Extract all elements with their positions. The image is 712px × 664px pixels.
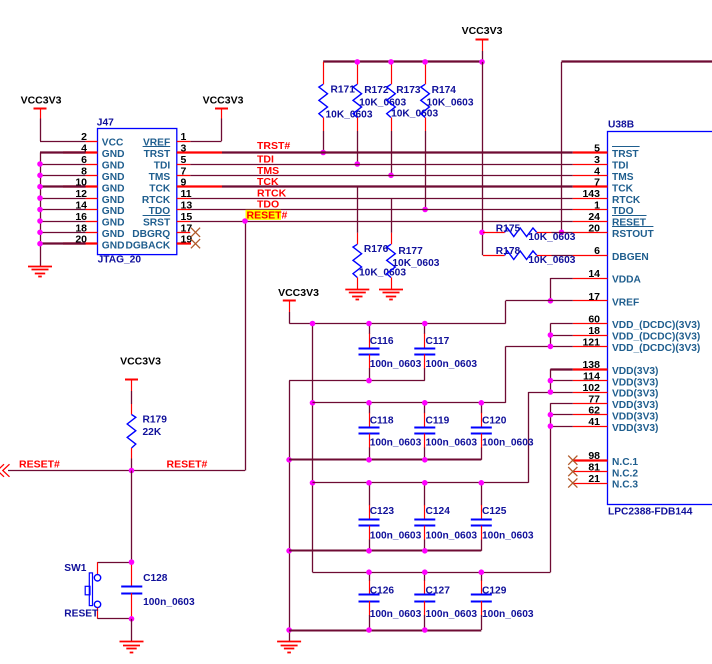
svg-text:C117: C117 (426, 336, 450, 347)
pin 60 VDD_(DCDC)(3V3) (U38B) (573, 314, 701, 332)
svg-text:R176: R176 (364, 244, 389, 255)
junction RESET# node (129, 468, 135, 474)
svg-text:VCC3V3: VCC3V3 (21, 94, 62, 106)
svg-text:10K_0603: 10K_0603 (359, 268, 406, 279)
svg-text:VDD(3V3): VDD(3V3) (612, 400, 658, 411)
resistor R179 22K (127, 404, 167, 471)
svg-text:VCC3V3: VCC3V3 (120, 356, 161, 368)
no-connect X (568, 467, 577, 476)
pin 2 VCC (J47 left stub) (81, 131, 124, 149)
svg-text:121: 121 (582, 336, 600, 348)
pin 24 RESET (U38B) (573, 211, 647, 229)
svg-text:R178: R178 (496, 246, 521, 257)
svg-text:R172: R172 (364, 85, 389, 96)
off-page arrow RESET# (0, 464, 9, 477)
svg-text:22K: 22K (143, 427, 162, 438)
svg-text:9: 9 (181, 177, 187, 189)
svg-text:100n_0603: 100n_0603 (482, 609, 534, 620)
svg-text:C126: C126 (370, 586, 395, 597)
no-connect X (568, 478, 577, 487)
pin 13 TDO (J47 right stub) (149, 200, 193, 218)
wire GND bus to pin 10 (37, 184, 85, 190)
pin 4 TMS (U38B) (573, 165, 634, 183)
wire VCC to U38B area (top right) (559, 62, 712, 236)
switch SW1 RESET (64, 562, 131, 619)
svg-text:10K_0603: 10K_0603 (391, 109, 438, 120)
pin 11 RTCK (J47 right stub) (142, 188, 192, 206)
svg-text:R173: R173 (396, 85, 421, 96)
svg-text:TRST: TRST (144, 149, 171, 160)
wire VCC vertical distribution (310, 321, 316, 573)
svg-text:100n_0603: 100n_0603 (426, 530, 478, 541)
pin 98 N.C.1 (U38B) (573, 450, 639, 468)
svg-text:18: 18 (588, 325, 600, 337)
svg-text:98: 98 (588, 450, 600, 462)
svg-text:10K_0603: 10K_0603 (392, 258, 439, 269)
junction (rail) (422, 59, 428, 65)
svg-text:VDD(3V3): VDD(3V3) (612, 366, 658, 377)
wire rail VDD3V3 (C123 row top) (313, 482, 529, 484)
wire net RESET (J47 to U38B) (190, 221, 573, 223)
power VCC3V3 (reset pull-up) (120, 356, 161, 405)
svg-text:138: 138 (582, 359, 600, 371)
pin 5 TDI (J47 right stub) (154, 154, 191, 172)
svg-text:LPC2388-FDB144: LPC2388-FDB144 (608, 506, 693, 517)
pin 114 VDD(3V3) (U38B) (573, 371, 659, 389)
svg-text:143: 143 (582, 188, 600, 200)
net label TDI (257, 154, 274, 166)
svg-text:77: 77 (588, 393, 600, 405)
svg-text:RESET#: RESET# (167, 459, 208, 471)
wire SRST net down from J47 pin15 (242, 218, 248, 470)
pin 1 TDO (U38B) (573, 200, 634, 218)
svg-text:GND: GND (102, 195, 125, 206)
wire VDD(3V3) bus A (528, 369, 573, 483)
svg-text:SW1: SW1 (64, 563, 86, 574)
svg-text:RESET#: RESET# (19, 459, 60, 471)
no-connect X (J47 pin 17) (191, 228, 200, 237)
label JTAG_20 (98, 254, 142, 265)
wire net TDI (J47 to U38B) (190, 164, 573, 166)
svg-text:20: 20 (588, 222, 600, 234)
power VCC3V3 (cap bank) (278, 287, 319, 324)
svg-text:C123: C123 (370, 506, 395, 517)
svg-text:TMS: TMS (612, 172, 634, 183)
capacitor C128 100n_0603 (121, 562, 195, 619)
wire rail C116/C117 bottom (289, 380, 425, 382)
svg-text:2: 2 (81, 131, 87, 143)
pin 21 N.C.3 (U38B) (573, 473, 639, 491)
svg-text:R171: R171 (331, 84, 356, 95)
svg-text:81: 81 (588, 462, 600, 474)
wire VDD_(DCDC) bus (506, 324, 573, 403)
wire J47 pin1 VREF to VCC3V3 (190, 141, 221, 143)
junction (rail) (388, 59, 394, 65)
pin 7 TMS (J47 right stub) (149, 165, 191, 183)
wire GND bus to pin 8 (37, 173, 85, 179)
svg-text:114: 114 (583, 371, 600, 383)
svg-text:4: 4 (594, 165, 600, 177)
wire rail VDD_DCDC (C118 row top) (313, 402, 506, 404)
svg-text:TDI: TDI (154, 161, 171, 172)
pin 5 TRST (U38B) (573, 143, 640, 161)
pin 8 GND (J47 left stub) (81, 165, 124, 183)
svg-text:J47: J47 (97, 118, 114, 129)
capacitor C120 100n_0603 (471, 400, 534, 460)
svg-text:U38B: U38B (608, 119, 634, 130)
wire rail VCC3V3 (C116/C117 top) (289, 323, 505, 325)
wire net RTCK (J47 to U38B) (190, 198, 573, 200)
svg-text:SRST: SRST (143, 218, 171, 229)
pin 20 GND (J47 left stub) (63, 234, 124, 252)
IC U38B box (608, 132, 712, 505)
pin 14 VDDA (U38B) (573, 268, 642, 286)
resistor R174 10K_0603 pull-up (421, 62, 474, 212)
svg-text:TRST#: TRST# (257, 140, 290, 152)
svg-text:3: 3 (181, 143, 187, 155)
net label TDO (257, 198, 279, 210)
power VCC3V3 (top-left) (21, 94, 62, 141)
label J47 (97, 118, 114, 129)
power VCC3V3 (pull-up rail) (462, 25, 503, 62)
svg-text:RSTOUT: RSTOUT (612, 229, 654, 240)
svg-text:VDD(3V3): VDD(3V3) (612, 411, 658, 422)
svg-text:10K_0603: 10K_0603 (326, 110, 373, 121)
svg-text:100n_0603: 100n_0603 (482, 530, 534, 541)
wire to ground (reset circuit) (131, 619, 133, 642)
svg-text:VDD(3V3): VDD(3V3) (612, 377, 658, 388)
svg-text:VCC3V3: VCC3V3 (203, 94, 244, 106)
net label RESET# (highlighted) (246, 209, 288, 221)
svg-text:100n_0603: 100n_0603 (370, 609, 422, 620)
svg-text:VREF: VREF (143, 138, 170, 149)
svg-text:19: 19 (181, 234, 193, 246)
wire GND bus to pin 12 (37, 195, 85, 201)
wire VDDA to VREF net (548, 278, 573, 304)
capacitor C117 100n_0603 (414, 321, 477, 381)
svg-text:C124: C124 (426, 506, 451, 517)
pin 6 GND (J47 left stub) (81, 154, 124, 172)
svg-text:TDI: TDI (612, 161, 629, 172)
svg-text:1: 1 (181, 131, 187, 143)
resistor R178 10K_0603 (483, 246, 576, 266)
pin 18 VDD_(DCDC)(3V3) (U38B) (573, 325, 701, 343)
wire VCC3V3 to J47 pin 2 (40, 141, 86, 143)
pin 121 VDD_(DCDC)(3V3) (U38B) (573, 336, 701, 354)
svg-text:JTAG_20: JTAG_20 (98, 254, 142, 265)
wire rail VDD3V3 (C126 row top) (313, 572, 551, 574)
pin 18 GND (J47 left stub) (75, 222, 124, 240)
power VCC3V3 (above J47 pin1) (203, 94, 244, 141)
connector J47 box (98, 129, 177, 255)
wire GND bus (J47 pins 4-20) (40, 153, 86, 267)
svg-text:1: 1 (594, 200, 600, 212)
junction (rail) (355, 59, 361, 65)
svg-text:DBGEN: DBGEN (612, 252, 649, 263)
svg-text:C129: C129 (482, 586, 507, 597)
capacitor C129 100n_0603 (471, 569, 534, 630)
capacitor C126 100n_0603 (359, 569, 422, 632)
pin 102 VDD(3V3) (U38B) (573, 382, 659, 400)
svg-text:TCK: TCK (257, 176, 279, 188)
svg-text:RESET: RESET (612, 218, 647, 229)
resistor R176 10K_0603 pull-down (353, 187, 406, 290)
wire rail GND (C123 row bottom) (289, 550, 481, 552)
svg-text:7: 7 (181, 165, 187, 177)
svg-text:R179: R179 (143, 415, 168, 426)
pin 3 TRST (J47 right stub) (143, 143, 222, 161)
svg-text:11: 11 (181, 188, 192, 200)
wire GND bus to pin 16 (37, 218, 85, 224)
ground (J47 GND bus) (28, 267, 52, 277)
ground (cap bank) (277, 642, 301, 653)
svg-text:GND: GND (102, 161, 125, 172)
pin 138 VDD(3V3) (U38B) (573, 359, 659, 377)
svg-text:10K_0603: 10K_0603 (528, 255, 575, 266)
pin 17 DBGRQ (J47 right stub) (132, 222, 192, 240)
net label RESET# (left) (19, 459, 60, 471)
capacitor C118 100n_0603 (359, 400, 422, 463)
ground (R177) (379, 290, 403, 300)
svg-text:RTCK: RTCK (142, 195, 171, 206)
svg-text:N.C.1: N.C.1 (612, 457, 638, 468)
label U38B (608, 119, 634, 130)
no-connect X (J47 pin 19) (191, 239, 200, 248)
svg-text:VREF: VREF (612, 298, 639, 309)
ground (reset circuit) (120, 642, 144, 653)
svg-text:100n_0603: 100n_0603 (426, 359, 478, 370)
svg-text:VDD_(DCDC)(3V3): VDD_(DCDC)(3V3) (612, 332, 700, 343)
svg-text:C118: C118 (370, 416, 394, 427)
svg-text:TMS: TMS (257, 165, 279, 177)
svg-text:17: 17 (181, 222, 193, 234)
svg-text:3: 3 (594, 154, 600, 166)
svg-text:TMS: TMS (149, 172, 171, 183)
svg-text:N.C.3: N.C.3 (612, 480, 638, 491)
svg-text:10K_0603: 10K_0603 (528, 232, 575, 243)
svg-text:102: 102 (582, 382, 600, 394)
svg-text:GND: GND (102, 183, 125, 194)
svg-text:GND: GND (102, 240, 125, 251)
pin 6 DBGEN (U38B) (573, 245, 649, 263)
capacitor C116 100n_0603 (359, 321, 422, 384)
svg-text:VDDA: VDDA (612, 275, 642, 286)
wire VCC rail down to R175/R178 (479, 62, 485, 255)
svg-text:100n_0603: 100n_0603 (370, 437, 422, 448)
svg-text:VDD(3V3): VDD(3V3) (612, 423, 658, 434)
svg-text:GND: GND (102, 206, 125, 217)
svg-text:GND: GND (102, 229, 125, 240)
wire VCC rail (R171-R174 pullups) (323, 60, 482, 62)
svg-text:GND: GND (102, 218, 125, 229)
net label RTCK (257, 187, 287, 199)
svg-text:R177: R177 (398, 246, 423, 257)
svg-text:VDD(3V3): VDD(3V3) (612, 389, 658, 400)
svg-text:TRST: TRST (612, 149, 639, 160)
no-connect X (568, 456, 577, 465)
svg-text:RESET#: RESET# (247, 209, 288, 221)
svg-text:7: 7 (594, 177, 600, 189)
pin 62 VDD(3V3) (U38B) (573, 405, 659, 423)
label LPC2388-FDB144 (608, 506, 693, 517)
capacitor C123 100n_0603 (359, 480, 422, 554)
svg-text:5: 5 (181, 154, 187, 166)
pin 7 TCK (U38B) (573, 177, 634, 195)
svg-text:10K_0603: 10K_0603 (359, 98, 406, 109)
svg-text:TDI: TDI (257, 154, 274, 166)
svg-text:VCC3V3: VCC3V3 (462, 25, 503, 37)
pin 4 GND (J47 left stub) (63, 143, 124, 161)
svg-text:100n_0603: 100n_0603 (370, 530, 422, 541)
pin 12 GND (J47 left stub) (75, 188, 124, 206)
pin 16 GND (J47 left stub) (75, 211, 124, 229)
pin 143 RTCK (U38B) (573, 188, 641, 206)
junction SW1/C128 bottom (129, 616, 135, 622)
net label RESET# (right) (167, 459, 208, 471)
pin 14 GND (J47 left stub) (75, 200, 124, 218)
svg-text:TCK: TCK (612, 183, 634, 194)
svg-text:100n_0603: 100n_0603 (482, 437, 534, 448)
resistor R172 10K_0603 pull-up (353, 62, 406, 167)
wire net TCK (J47 to U38B) (222, 185, 573, 187)
wire VDD(3V3) bus B (548, 403, 573, 572)
svg-text:VDD_(DCDC)(3V3): VDD_(DCDC)(3V3) (612, 343, 700, 354)
capacitor C127 100n_0603 (414, 569, 477, 632)
svg-text:62: 62 (588, 405, 600, 417)
pin 3 TDI (U38B) (573, 154, 629, 172)
pin 41 VDD(3V3) (U38B) (573, 416, 659, 434)
svg-text:41: 41 (588, 416, 600, 428)
pin 20 RSTOUT (U38B) (573, 222, 655, 240)
pin 77 VDD(3V3) (U38B) (573, 393, 659, 411)
wire GND vertical (cap bank) (286, 381, 292, 642)
svg-text:C127: C127 (426, 586, 451, 597)
svg-text:C125: C125 (482, 506, 507, 517)
wire GND bus to pin 20 (37, 241, 85, 247)
pin 1 VREF (J47 right stub) (143, 131, 190, 149)
junction (rail VCC entry) (479, 59, 485, 65)
wire RESET# horizontal (8, 470, 245, 472)
svg-text:6: 6 (594, 245, 600, 257)
ground (R176) (345, 290, 369, 300)
svg-text:VDD_(DCDC)(3V3): VDD_(DCDC)(3V3) (612, 320, 700, 331)
svg-text:VCC3V3: VCC3V3 (278, 287, 319, 299)
svg-text:5: 5 (594, 143, 600, 155)
net label TCK (257, 176, 279, 188)
wire RESET# node down to SW1/C128 (131, 471, 133, 563)
svg-text:C120: C120 (482, 416, 507, 427)
svg-text:GND: GND (102, 149, 125, 160)
svg-text:100n_0603: 100n_0603 (426, 437, 478, 448)
capacitor C119 100n_0603 (414, 400, 477, 463)
svg-text:21: 21 (588, 473, 600, 485)
svg-text:R175: R175 (496, 223, 521, 234)
capacitor C124 100n_0603 (414, 480, 477, 554)
svg-text:60: 60 (588, 314, 600, 326)
svg-text:R174: R174 (432, 85, 457, 96)
svg-text:100n_0603: 100n_0603 (143, 597, 195, 608)
wire GND bus to pin 18 (37, 230, 85, 236)
wire GND bus to pin 14 (37, 207, 85, 213)
svg-text:N.C.2: N.C.2 (612, 468, 638, 479)
pin 81 N.C.2 (U38B) (573, 462, 639, 480)
svg-text:24: 24 (588, 211, 600, 223)
svg-text:DBGRQ: DBGRQ (132, 229, 170, 240)
net label TMS (257, 165, 279, 177)
svg-text:10K_0603: 10K_0603 (427, 98, 474, 109)
wire rail GND (C126 row bottom) (289, 630, 481, 632)
svg-text:VCC: VCC (102, 138, 124, 149)
wire VREF net to rail (506, 301, 573, 324)
svg-text:100n_0603: 100n_0603 (426, 609, 478, 620)
svg-text:14: 14 (588, 268, 600, 280)
net label TRST# (257, 140, 290, 152)
svg-text:C119: C119 (426, 416, 450, 427)
svg-text:C116: C116 (370, 336, 394, 347)
svg-text:TCK: TCK (149, 183, 171, 194)
resistor R171 10K_0603 pull-up (319, 62, 373, 155)
svg-text:RESET: RESET (64, 608, 99, 619)
resistor R173 10K_0603 pull-up (387, 62, 439, 178)
pin 17 VREF (U38B) (573, 291, 639, 309)
resistor R177 10K_0603 pull-down (387, 198, 440, 289)
svg-text:C128: C128 (143, 573, 168, 584)
pin 15 SRST (J47 right stub) (143, 211, 193, 229)
pin 9 TCK (J47 right stub) (149, 177, 222, 195)
wire net TRST (J47 to U38B) (222, 151, 573, 153)
capacitor C125 100n_0603 (471, 480, 534, 551)
svg-text:100n_0603: 100n_0603 (370, 359, 422, 370)
junction SW1/C128 top (129, 559, 135, 565)
wire net TMS (J47 to U38B) (190, 175, 573, 177)
svg-text:17: 17 (588, 291, 600, 303)
svg-text:DGBACK: DGBACK (125, 240, 170, 251)
wire GND bus to pin 6 (37, 161, 85, 167)
wire net TDO (J47 to U38B) (190, 209, 573, 211)
resistor R175 10K_0603 (483, 223, 576, 242)
pin 19 DGBACK (J47 right stub) (125, 234, 192, 252)
pin 10 GND (J47 left stub) (63, 177, 124, 195)
wire rail GND (C118 row bottom) (289, 459, 481, 461)
svg-text:RTCK: RTCK (612, 195, 641, 206)
svg-text:GND: GND (102, 172, 125, 183)
